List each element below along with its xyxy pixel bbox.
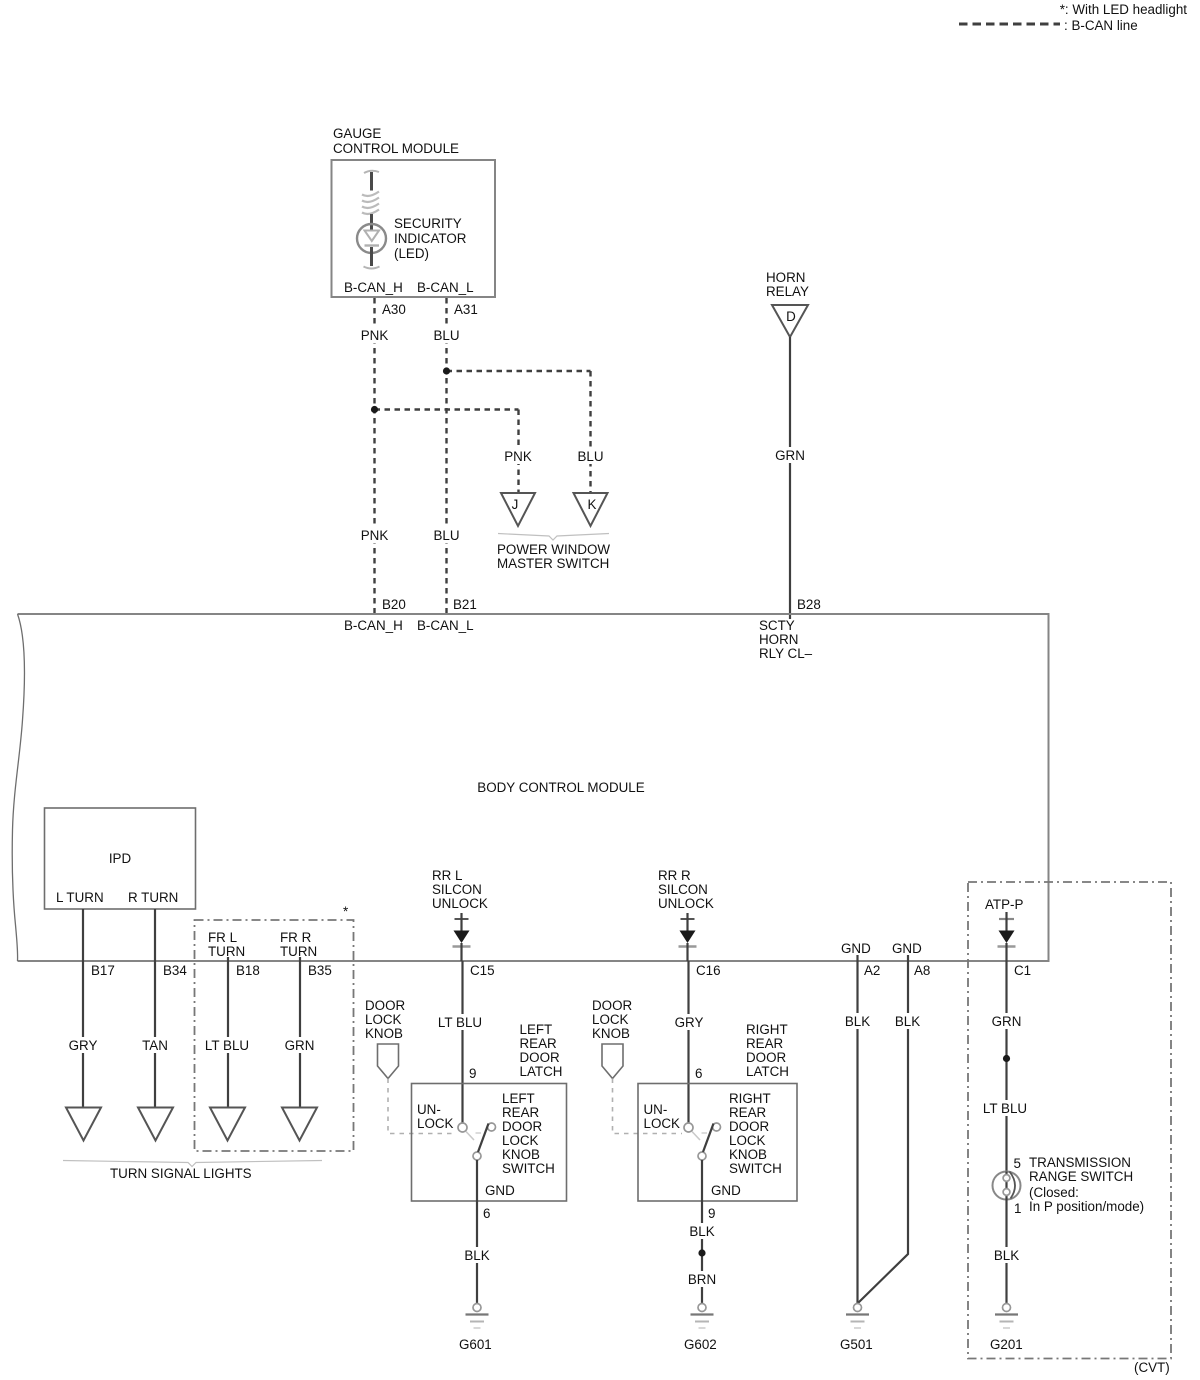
svg-text:FR L: FR L <box>208 930 237 945</box>
svg-text:TURN: TURN <box>208 944 245 959</box>
svg-text:RIGHT: RIGHT <box>729 1091 771 1106</box>
svg-text:POWER WINDOW: POWER WINDOW <box>497 542 610 557</box>
svg-text:9: 9 <box>469 1066 476 1081</box>
svg-text:INDICATOR: INDICATOR <box>394 231 467 246</box>
svg-text:G201: G201 <box>990 1337 1023 1352</box>
svg-text:LATCH: LATCH <box>746 1064 789 1079</box>
svg-text:K: K <box>588 497 597 512</box>
svg-text:(Closed:: (Closed: <box>1029 1185 1079 1200</box>
svg-text:BLU: BLU <box>577 449 603 464</box>
svg-text:BRN: BRN <box>688 1272 716 1287</box>
svg-text:LOCK: LOCK <box>729 1133 766 1148</box>
svg-text:UNLOCK: UNLOCK <box>432 896 488 911</box>
svg-text:BLK: BLK <box>464 1248 489 1263</box>
svg-text:GAUGE: GAUGE <box>333 126 381 141</box>
svg-text:MASTER SWITCH: MASTER SWITCH <box>497 556 609 571</box>
svg-text:G501: G501 <box>840 1337 873 1352</box>
svg-text:C1: C1 <box>1014 963 1031 978</box>
svg-text:*: * <box>343 904 348 919</box>
svg-text:RELAY: RELAY <box>766 284 809 299</box>
svg-text:PNK: PNK <box>361 528 389 543</box>
svg-text:B-CAN_L: B-CAN_L <box>417 280 474 295</box>
svg-text:LOCK: LOCK <box>417 1116 454 1131</box>
svg-text:UN-: UN- <box>417 1102 441 1117</box>
svg-text:C15: C15 <box>470 963 495 978</box>
svg-text:LT BLU: LT BLU <box>438 1015 482 1030</box>
svg-text:BLK: BLK <box>689 1224 714 1239</box>
svg-text:GND: GND <box>711 1183 741 1198</box>
svg-text:BLU: BLU <box>433 528 459 543</box>
svg-text:TRANSMISSION: TRANSMISSION <box>1029 1155 1131 1170</box>
svg-text:L TURN: L TURN <box>56 890 104 905</box>
svg-text:LEFT: LEFT <box>502 1091 535 1106</box>
svg-text:LOCK: LOCK <box>644 1116 681 1131</box>
svg-text:REAR: REAR <box>729 1105 767 1120</box>
svg-text:DOOR: DOOR <box>729 1119 770 1134</box>
svg-text:(LED): (LED) <box>394 246 429 261</box>
svg-text:BLK: BLK <box>895 1014 920 1029</box>
svg-text:A31: A31 <box>454 302 478 317</box>
svg-text:IPD: IPD <box>109 851 132 866</box>
svg-text:DOOR: DOOR <box>746 1050 787 1065</box>
svg-text:RR R: RR R <box>658 868 691 883</box>
svg-text:GRN: GRN <box>775 448 805 463</box>
svg-text:KNOB: KNOB <box>729 1147 767 1162</box>
svg-text:G601: G601 <box>459 1337 492 1352</box>
svg-text:SILCON: SILCON <box>432 882 482 897</box>
svg-text:LT BLU: LT BLU <box>983 1101 1027 1116</box>
svg-text:6: 6 <box>695 1066 702 1081</box>
svg-text:GND: GND <box>892 941 922 956</box>
svg-text:KNOB: KNOB <box>502 1147 540 1162</box>
svg-text:KNOB: KNOB <box>592 1026 630 1041</box>
svg-text:5: 5 <box>1014 1156 1021 1171</box>
svg-text:BLK: BLK <box>994 1248 1019 1263</box>
svg-text:FR R: FR R <box>280 930 312 945</box>
svg-text:B-CAN_H: B-CAN_H <box>344 280 403 295</box>
svg-text:GRY: GRY <box>675 1015 704 1030</box>
svg-text:SILCON: SILCON <box>658 882 708 897</box>
svg-text:TAN: TAN <box>142 1038 168 1053</box>
svg-text:A2: A2 <box>864 963 880 978</box>
svg-text:RR L: RR L <box>432 868 463 883</box>
svg-text:SWITCH: SWITCH <box>502 1161 555 1176</box>
svg-text:(CVT): (CVT) <box>1134 1360 1170 1375</box>
svg-text:ATP-P: ATP-P <box>985 897 1024 912</box>
svg-text:6: 6 <box>483 1206 490 1221</box>
svg-text:D: D <box>786 309 796 324</box>
svg-text:C16: C16 <box>696 963 721 978</box>
svg-text:A30: A30 <box>382 302 406 317</box>
svg-text:UNLOCK: UNLOCK <box>658 896 714 911</box>
svg-text:B28: B28 <box>797 597 821 612</box>
svg-text:LEFT: LEFT <box>520 1022 553 1037</box>
svg-text:B35: B35 <box>308 963 332 978</box>
svg-text:9: 9 <box>708 1206 715 1221</box>
svg-text:DOOR: DOOR <box>520 1050 561 1065</box>
svg-text:In P position/mode): In P position/mode) <box>1029 1199 1144 1214</box>
svg-text:B17: B17 <box>91 963 115 978</box>
svg-text:BODY CONTROL MODULE: BODY CONTROL MODULE <box>477 780 644 795</box>
svg-text:DOOR: DOOR <box>592 998 633 1013</box>
svg-text:PNK: PNK <box>504 449 532 464</box>
svg-text:GND: GND <box>485 1183 515 1198</box>
svg-text:1: 1 <box>1014 1201 1021 1216</box>
svg-text:LOCK: LOCK <box>502 1133 539 1148</box>
svg-text:G602: G602 <box>684 1337 717 1352</box>
svg-text:UN-: UN- <box>644 1102 668 1117</box>
svg-text:B20: B20 <box>382 597 406 612</box>
svg-text:B21: B21 <box>453 597 477 612</box>
svg-text:: B-CAN line: : B-CAN line <box>1064 18 1138 33</box>
svg-text:J: J <box>512 497 519 512</box>
svg-text:SECURITY: SECURITY <box>394 216 462 231</box>
svg-text:*: With LED headlight: *: With LED headlight <box>1060 2 1188 17</box>
svg-text:HORN: HORN <box>766 270 805 285</box>
svg-text:LATCH: LATCH <box>520 1064 563 1079</box>
svg-text:REAR: REAR <box>502 1105 540 1120</box>
svg-text:A8: A8 <box>914 963 930 978</box>
svg-text:GRY: GRY <box>69 1038 98 1053</box>
svg-text:LOCK: LOCK <box>592 1012 629 1027</box>
svg-text:DOOR: DOOR <box>502 1119 543 1134</box>
svg-text:B-CAN_H: B-CAN_H <box>344 618 403 633</box>
svg-text:BLK: BLK <box>845 1014 870 1029</box>
svg-text:RLY CL–: RLY CL– <box>759 646 813 661</box>
svg-text:GND: GND <box>841 941 871 956</box>
svg-text:REAR: REAR <box>520 1036 558 1051</box>
svg-text:RIGHT: RIGHT <box>746 1022 788 1037</box>
svg-text:LT BLU: LT BLU <box>205 1038 249 1053</box>
svg-text:DOOR: DOOR <box>365 998 406 1013</box>
svg-text:TURN SIGNAL LIGHTS: TURN SIGNAL LIGHTS <box>110 1166 252 1181</box>
svg-text:TURN: TURN <box>280 944 317 959</box>
svg-text:SCTY: SCTY <box>759 618 795 633</box>
svg-text:GRN: GRN <box>285 1038 315 1053</box>
svg-text:BLU: BLU <box>433 328 459 343</box>
svg-text:R TURN: R TURN <box>128 890 178 905</box>
svg-text:CONTROL MODULE: CONTROL MODULE <box>333 141 459 156</box>
svg-text:RANGE SWITCH: RANGE SWITCH <box>1029 1169 1133 1184</box>
svg-text:SWITCH: SWITCH <box>729 1161 782 1176</box>
svg-text:REAR: REAR <box>746 1036 784 1051</box>
svg-text:KNOB: KNOB <box>365 1026 403 1041</box>
svg-text:GRN: GRN <box>992 1014 1022 1029</box>
svg-text:B34: B34 <box>163 963 187 978</box>
svg-text:B-CAN_L: B-CAN_L <box>417 618 474 633</box>
svg-text:PNK: PNK <box>361 328 389 343</box>
svg-text:LOCK: LOCK <box>365 1012 402 1027</box>
svg-text:B18: B18 <box>236 963 260 978</box>
svg-text:HORN: HORN <box>759 632 798 647</box>
